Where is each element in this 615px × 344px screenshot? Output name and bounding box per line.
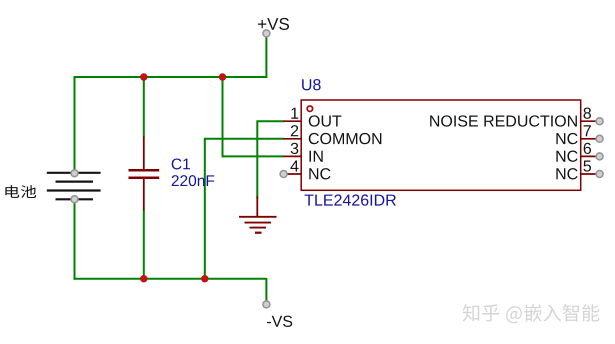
label +VS: [258, 18, 289, 30]
wire C1 top lead: [143, 76, 145, 138]
label TLE2426IDR: [305, 194, 396, 205]
ground symbol: [239, 197, 277, 233]
battery plates: [47, 173, 101, 200]
label C1 value 220nF: [172, 175, 215, 186]
pin 1 stub: [284, 120, 302, 122]
pin name NC: [309, 168, 330, 179]
power port +VS terminal: [263, 30, 270, 37]
wire +VS terminal drop: [265, 34, 267, 78]
wire C1 bottom lead: [143, 210, 145, 280]
label -VS: [267, 316, 292, 327]
battery terminal bottom: [71, 196, 78, 203]
pin 4 stub: [284, 173, 302, 175]
pin number 2: [291, 125, 298, 136]
wire IN net (pin 3): [223, 76, 285, 156]
pin 7 stub: [581, 138, 599, 140]
junction bottom rail / COMMON net: [201, 275, 208, 282]
battery terminal top: [71, 170, 78, 177]
pin number 4: [290, 160, 298, 171]
pin number 3: [291, 143, 299, 154]
junction bottom rail / C1: [140, 275, 147, 282]
junction top rail / IN net: [219, 73, 226, 80]
junction top rail / C1: [140, 73, 147, 80]
wire -VS terminal drop: [265, 278, 267, 304]
capacitor C1: [129, 137, 160, 211]
pin number 5: [583, 160, 591, 171]
pin number 1: [291, 108, 298, 119]
watermark 知乎 @嵌入智能: [463, 304, 601, 325]
label battery 电池: [5, 185, 36, 198]
pin name IN: [309, 151, 322, 162]
wire COMMON net (pin 2): [205, 139, 284, 280]
pin name COMMON: [309, 133, 382, 144]
pin name NC (right): [556, 133, 577, 144]
pin 1 indicator: [307, 106, 312, 111]
power port -VS terminal: [263, 301, 270, 308]
pin 3 stub: [284, 155, 302, 157]
op-amp U8 TLE2426IDR body: [301, 100, 581, 190]
pin name NC (right): [556, 168, 577, 179]
wire battery bottom lead: [74, 199, 76, 279]
wire bottom -VS rail: [74, 278, 267, 280]
pin 8 stub: [581, 120, 599, 122]
label U8 designator: [302, 79, 321, 90]
pin 5 stub: [581, 173, 599, 175]
wire battery top lead: [74, 76, 76, 173]
pin 2 stub: [284, 138, 302, 140]
pin name OUT: [309, 115, 342, 126]
wire top +VS rail: [74, 76, 267, 78]
pin number 7: [584, 125, 591, 136]
label C1 designator: [172, 158, 190, 169]
pin 6 stub: [581, 155, 599, 157]
pin number 8: [583, 108, 591, 119]
pin name NOISE REDUCTION (right): [430, 115, 577, 126]
pin 4 no-connect terminal: [280, 171, 287, 178]
pin name NC (right): [556, 151, 577, 162]
wire OUT net to ground (pin 1): [257, 121, 284, 198]
pin number 6: [584, 143, 591, 154]
